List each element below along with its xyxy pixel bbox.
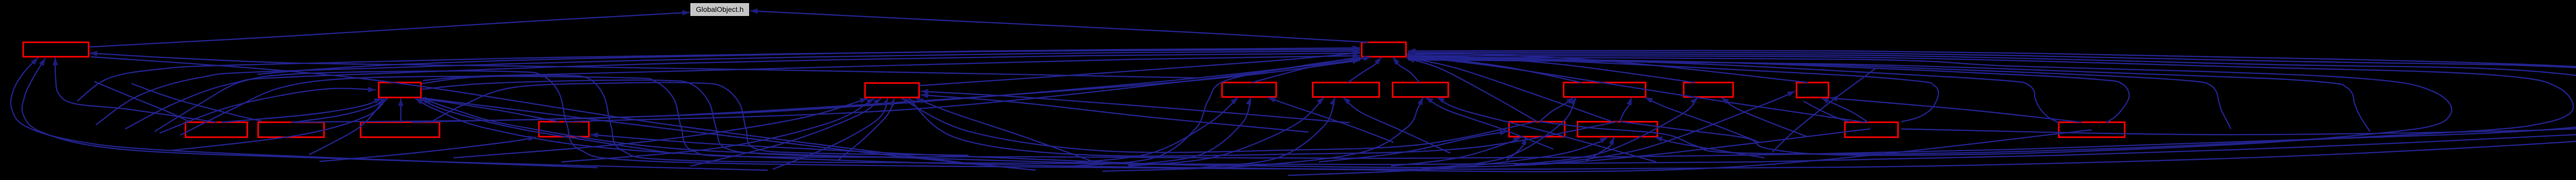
svg-text:GlobalObject.h: GlobalObject.h (696, 5, 744, 13)
